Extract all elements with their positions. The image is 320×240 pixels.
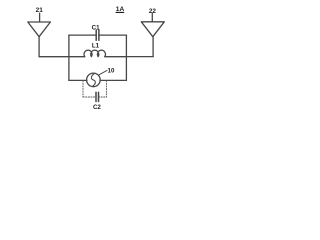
- svg-text:C1: C1: [92, 25, 100, 32]
- dashed wire bottom left segment: [83, 96, 96, 98]
- variable element 10 (circle): [87, 73, 101, 87]
- svg-text:L1: L1: [92, 43, 100, 50]
- wire top branch left segment: [69, 34, 96, 36]
- svg-text:10: 10: [108, 68, 115, 75]
- wire right horizontal: [126, 56, 153, 58]
- wire box right edge: [125, 35, 127, 80]
- antenna 22: [141, 13, 164, 36]
- wire bottom branch right segment: [100, 79, 126, 81]
- wire left horizontal: [39, 56, 69, 58]
- wire top branch right segment: [99, 34, 127, 36]
- inductor L1: [84, 50, 106, 57]
- wire middle branch left lead: [69, 56, 85, 58]
- wire feed antenna 22: [152, 37, 154, 57]
- squiggle inside element 10: [91, 74, 95, 86]
- wire feed antenna 21: [38, 37, 40, 57]
- capacitor C2: [96, 92, 99, 101]
- svg-text:1A: 1A: [116, 6, 125, 13]
- wire box left edge: [68, 35, 70, 80]
- dashed wire right vertical: [105, 81, 107, 97]
- svg-text:21: 21: [36, 7, 44, 14]
- wire middle branch right lead: [105, 56, 127, 58]
- dashed wire bottom right segment: [99, 96, 107, 98]
- svg-text:22: 22: [149, 8, 157, 15]
- capacitor C1: [96, 30, 99, 40]
- svg-text:C2: C2: [93, 104, 101, 111]
- leader line to label 10: [98, 70, 107, 75]
- dashed wire left vertical: [82, 81, 84, 97]
- underline of figure label 1A: [116, 11, 124, 13]
- wire bottom branch left segment: [69, 79, 87, 81]
- antenna 21: [28, 13, 51, 37]
